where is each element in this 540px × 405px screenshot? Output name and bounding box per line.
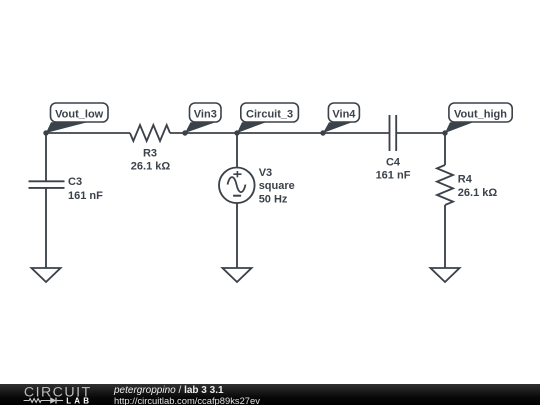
label C3 value [68,176,103,202]
resistor R4 [437,165,453,205]
wire [236,133,238,168]
svg-text:Vin4: Vin4 [332,109,356,121]
node Circuit_3 [234,103,298,136]
svg-text:Vout_high: Vout_high [454,109,507,121]
node Vin4 [320,103,359,136]
svg-text:R4: R4 [458,173,473,185]
resistor R3 [130,125,170,141]
wire [45,188,47,268]
voltage source V3 [219,168,255,204]
wire [45,133,47,181]
wire [444,205,446,268]
svg-text:R3: R3 [143,148,157,160]
svg-text:Vout_low: Vout_low [55,109,104,121]
wire [396,132,445,134]
wire [46,132,130,134]
CircuitLab logo [21,384,101,405]
svg-text:26.1 kΩ: 26.1 kΩ [131,160,171,172]
label R3 value [131,148,171,173]
footer bar [0,384,540,405]
svg-text:161 nF: 161 nF [68,190,103,202]
node Vin3 [182,103,221,136]
label V3 value [259,167,295,206]
ground [32,268,61,282]
capacitor C4 [390,115,397,151]
node Vout_high [442,103,512,136]
wire [236,203,238,268]
svg-text:V3: V3 [259,167,272,179]
svg-text:Vin3: Vin3 [194,109,217,121]
svg-text:Circuit_3: Circuit_3 [246,109,293,121]
svg-text:square: square [259,180,295,192]
svg-text:C3: C3 [68,176,82,188]
svg-text:50 Hz: 50 Hz [259,194,288,206]
label R4 value [458,173,498,198]
capacitor C3 [29,181,65,188]
svg-text:C4: C4 [386,156,401,168]
wire [170,132,390,134]
svg-text:26.1 kΩ: 26.1 kΩ [458,187,498,199]
ground [223,268,252,282]
label C4 value [376,156,411,181]
svg-text:161 nF: 161 nF [376,170,411,182]
wire [444,133,446,165]
node Vout_low [43,103,108,136]
svg-text:LAB: LAB [66,396,92,405]
ground [431,268,460,282]
